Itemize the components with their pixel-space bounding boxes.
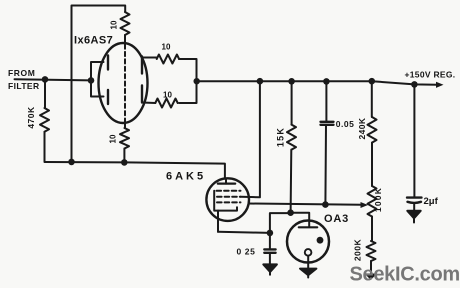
- wire 240K to 100K: [371, 143, 373, 186]
- grid 2 dashed 6AK5: [217, 196, 241, 198]
- svg-text:0 25: 0 25: [237, 246, 256, 256]
- wire grid1 return: [214, 191, 237, 211]
- svg-text:10: 10: [162, 43, 171, 52]
- node output junction: [194, 78, 200, 84]
- ground 0.25: [263, 264, 277, 274]
- svg-text:Ix6AS7: Ix6AS7: [74, 34, 113, 46]
- cathode bar lower 6AS7: [141, 86, 143, 103]
- node grid resistor junction: [121, 159, 128, 166]
- arrow potentiometer tap: [361, 202, 369, 208]
- wire 100K to 200K: [371, 217, 373, 242]
- wire 6AK5 plate node line: [45, 162, 225, 179]
- resistor 240K: [368, 117, 377, 143]
- ground 2uf: [407, 211, 420, 223]
- resistor R 10 (grid stopper, vertical top): [121, 12, 130, 35]
- svg-text:FILTER: FILTER: [8, 81, 40, 91]
- svg-text:10: 10: [110, 20, 119, 29]
- wire +150V output rail: [197, 81, 437, 85]
- node input junction: [42, 76, 49, 83]
- node 15K rail junction: [288, 78, 295, 85]
- resistor 100K: [368, 186, 377, 217]
- grid 3 dashed 6AK5: [217, 201, 241, 203]
- wire 2uf drop: [413, 84, 415, 196]
- resistor R 10 (grid lower, vertical): [120, 128, 129, 149]
- resistor R 10 (upper cathode, horizontal): [157, 55, 179, 64]
- wire OA3 cathode to ground: [307, 256, 309, 269]
- wire 15K to OA3 node: [290, 150, 293, 213]
- wire 200K bottom lead: [370, 261, 372, 274]
- wire plate bus: [91, 62, 104, 97]
- svg-text:0.05: 0.05: [336, 119, 355, 129]
- wire to plate node line: [123, 149, 125, 163]
- node screen rail junction: [257, 78, 264, 85]
- gas dot OA3: [317, 237, 324, 244]
- node divider rail junction: [369, 78, 376, 85]
- capacitor 2uf: [407, 198, 422, 203]
- svg-text:15K: 15K: [275, 127, 285, 147]
- wire grid line to divider tap: [249, 204, 362, 205]
- svg-text:OA3: OA3: [324, 213, 349, 225]
- node 15K OA3 junction: [287, 209, 294, 216]
- resistor 15K: [287, 125, 296, 150]
- wire FROM FILTER input: [15, 79, 92, 80]
- node cathode junction: [267, 230, 274, 237]
- svg-text:2μf: 2μf: [424, 196, 439, 207]
- wire 0.05 to grid line: [324, 125, 327, 205]
- wire 6AK5 cathode line: [218, 232, 270, 233]
- wire 15K drop: [291, 81, 293, 124]
- cathode circle OA3: [305, 249, 312, 256]
- node plate bus junction: [88, 77, 95, 84]
- svg-text:6AK5: 6AK5: [166, 171, 206, 183]
- node 2uf rail junction: [411, 81, 418, 88]
- tube OA3 envelope: [287, 221, 329, 263]
- ground OA3: [300, 269, 316, 278]
- tube 6AK5 envelope: [206, 178, 249, 221]
- resistor R 10 (lower cathode, horizontal): [155, 99, 177, 108]
- wire 2uf to ground: [413, 203, 415, 211]
- grid dashed line of 6AS7: [124, 45, 126, 122]
- wire 0.25 top lead: [269, 233, 271, 249]
- svg-text:FROM: FROM: [8, 68, 35, 78]
- plate bar lower 6AS7: [107, 90, 109, 104]
- grid 1 dashed 6AK5: [217, 190, 241, 192]
- wire cathode up to OA3 feed: [270, 213, 309, 233]
- resistor 200K: [367, 241, 376, 261]
- capacitor 0.25: [264, 249, 275, 252]
- plate bar 6AK5: [218, 183, 235, 185]
- svg-text:470K: 470K: [26, 106, 36, 129]
- wire screen lead to rail: [241, 81, 260, 197]
- resistor 470K: [40, 108, 49, 132]
- wire plate lead 6AK5: [225, 179, 227, 184]
- anode bar OA3: [299, 226, 317, 228]
- arrow output: [436, 82, 444, 88]
- wire 0.25 to ground: [269, 253, 271, 265]
- wire 470K top lead: [44, 79, 46, 108]
- wire 240K top lead: [371, 81, 373, 117]
- svg-text:240K: 240K: [357, 117, 367, 139]
- capacitor 0.05: [321, 122, 334, 125]
- wire 470K bottom lead: [44, 132, 46, 162]
- wire cathode lead 6AK5: [217, 211, 219, 232]
- wire resistor to 6AS7 grid top: [124, 35, 126, 44]
- svg-text:200K: 200K: [352, 238, 362, 261]
- node 0.05 grid line junction: [322, 201, 329, 208]
- wire 6AS7 grid bottom lead: [124, 122, 126, 129]
- wire cathode leads: [142, 58, 157, 104]
- node left rail junction: [68, 159, 75, 166]
- svg-text:+150V REG.: +150V REG.: [405, 69, 456, 79]
- plate bar upper 6AS7: [107, 56, 109, 70]
- ground 200K: [365, 274, 378, 281]
- tube 1x6AS7 envelope: [99, 43, 148, 123]
- wire 0.05 drop: [325, 81, 327, 121]
- svg-text:SeekIC.com: SeekIC.com: [350, 264, 460, 286]
- svg-text:10: 10: [109, 134, 118, 143]
- node 0.05 rail junction: [323, 78, 330, 85]
- svg-text:100K: 100K: [373, 187, 383, 212]
- cathode bar upper 6AS7: [141, 57, 143, 74]
- wire cathode junction bar: [179, 59, 197, 103]
- svg-text:10: 10: [163, 91, 172, 100]
- wire top rail grid loop: [72, 6, 126, 162]
